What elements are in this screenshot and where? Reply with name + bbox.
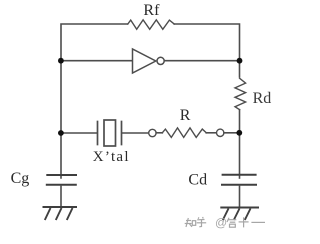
wire Cg bottom lead: [60, 185, 62, 207]
svg-text:Cg: Cg: [11, 170, 30, 187]
wire Cd bottom lead: [239, 185, 241, 207]
ground (Cd): [220, 208, 259, 221]
watermark: 知乎 @詹十一: [185, 217, 207, 227]
crystal X'tal: [97, 122, 99, 145]
svg-text:Rd: Rd: [253, 90, 272, 107]
capacitor Cd: [221, 175, 257, 185]
svg-text:X’tal: X’tal: [93, 149, 130, 165]
wire right vertical below Rd: [239, 110, 241, 178]
node terminal circle 2: [217, 129, 224, 136]
ground (Cg): [43, 207, 78, 220]
svg-text:R: R: [180, 107, 191, 124]
node junction dot D (crystal row right): [236, 130, 242, 136]
capacitor Cg: [46, 175, 77, 185]
wire inverter output: [164, 60, 239, 62]
wire top wire right segment + right vertical top: [174, 24, 239, 77]
wire crystal to terminal: [122, 132, 148, 134]
svg-text:@: @: [215, 216, 227, 230]
op-amp inverter U1: [133, 49, 156, 73]
wire inverter input: [61, 60, 132, 62]
resistor R: [162, 128, 206, 137]
wire crystal row left: [61, 132, 97, 134]
wire terminal to R: [156, 132, 162, 134]
wire top-left vertical + top wire left segment: [61, 24, 128, 178]
node junction dot A (inverter input): [58, 58, 64, 64]
svg-text:Rf: Rf: [143, 2, 160, 19]
node junction dot C (crystal row left): [58, 130, 64, 136]
resistor Rf: [128, 20, 174, 29]
wire R to terminal: [206, 132, 216, 134]
node terminal circle 1: [149, 129, 156, 136]
svg-text:Cd: Cd: [188, 171, 207, 188]
resistor Rd: [235, 78, 246, 109]
node junction dot B (inverter output): [237, 58, 243, 64]
wire terminal to right vertical: [224, 132, 240, 134]
